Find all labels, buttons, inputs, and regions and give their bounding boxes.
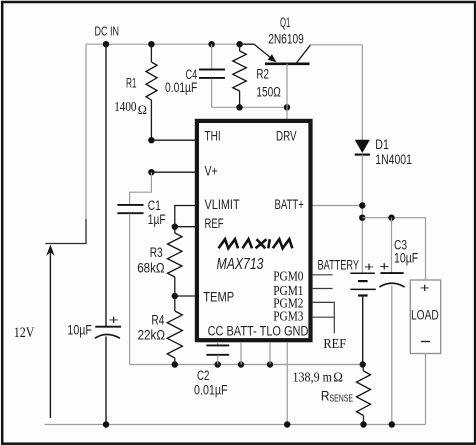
junction dot R2 top / Q1 emitter [236,41,242,47]
svg-text:MAX713: MAX713 [217,256,264,273]
svg-text:D1: D1 [375,137,389,152]
junction dot DC IN / 10uF branch [103,41,109,47]
junction dot R4 bottom [172,361,178,367]
IC U1 MAX713 body [197,121,311,340]
resistor R2 [233,44,247,107]
wire Q1 collector to D1 [310,44,362,46]
svg-text:1400: 1400 [114,99,137,114]
svg-text:R4: R4 [151,313,164,328]
svg-text:+: + [364,259,374,274]
MAXIM logo [219,239,293,248]
load box LOAD [410,280,440,354]
resistor R4 [167,296,182,365]
pin PGM3 tied to REF [273,310,334,325]
svg-text:V+: V+ [205,164,218,179]
wire collector rail down to D1 anode [361,45,363,140]
pin PGM0 [273,269,332,284]
voltage source arrow 12V [46,245,55,418]
junction dot battery minus / RSENSE top [360,361,366,367]
svg-text:REF: REF [323,337,346,352]
diode D1 [355,140,370,155]
svg-text:R2: R2 [256,67,269,82]
wire BATT+ pin to D1 column [312,205,362,207]
junction dot R1 top [148,41,154,47]
svg-text:0.01µF: 0.01µF [194,382,228,397]
wire top rail DC IN net [86,43,240,45]
svg-text:LOAD: LOAD [411,307,439,322]
svg-text:BATTERY: BATTERY [318,257,360,272]
svg-text:1µF: 1µF [148,212,166,227]
junction dot BATT+ to C3/LOAD branch [359,215,365,221]
pin PGM1 [273,284,332,299]
pin V+ [148,164,218,179]
svg-text:CC BATT- TLO GND: CC BATT- TLO GND [208,324,309,339]
svg-text:12V: 12V [14,325,35,341]
svg-text:TEMP: TEMP [203,289,234,304]
pin THI [148,129,221,144]
svg-text:VLIMIT: VLIMIT [205,197,240,212]
svg-text:R: R [321,388,330,403]
svg-text:+: + [379,258,389,273]
wire left rail from DC IN down [85,44,87,220]
junction dot C4 top [208,41,214,47]
pin VLIMIT with jog to REF [175,197,240,227]
junction dot ground/GND pin [284,421,290,427]
svg-text:Q1: Q1 [280,15,290,30]
resistor R1 [146,44,157,140]
svg-text:C1: C1 [148,198,161,213]
junction dot CC/C2 [215,361,221,367]
junction dot ground/RSENSE [360,421,366,427]
junction dot R2 bottom [236,104,242,110]
ground rail [45,424,426,426]
junction dot ground/10uF [103,421,109,427]
svg-text:R1: R1 [126,76,137,91]
svg-text:Ω: Ω [333,370,343,385]
resistor R3 [168,227,183,296]
pin TEMP [172,289,235,304]
wire GND pin to ground rail [286,342,288,425]
capacitor C4 [199,44,225,107]
wire TLO pin stub [269,342,271,365]
svg-text:DRV: DRV [276,129,297,144]
svg-text:1N4001: 1N4001 [375,152,412,167]
wire D1 cathode down to BATT+ node [361,155,363,273]
resistor RSENSE [357,365,371,425]
capacitor 10uF input (left) [95,44,121,424]
junction dot ground/C3 [389,421,395,427]
svg-text:PGM0: PGM0 [273,269,303,284]
svg-text:10µF: 10µF [394,250,418,265]
pin REF [172,216,224,231]
svg-text:SENSE: SENSE [330,393,354,404]
wire C4/R2 bottom to DRV [212,106,287,108]
wire BATT- pin stub [240,342,242,365]
svg-text:68kΩ: 68kΩ [137,260,164,275]
capacitor C1 [117,172,151,364]
svg-text:PGM3: PGM3 [273,310,303,325]
transistor Q1 [240,44,311,107]
battery BATTERY [350,273,376,364]
wire DRV pin stub [286,107,288,121]
wire BATT+ branch to C3 and LOAD [362,218,425,280]
svg-text:+: + [109,312,119,327]
pin PGM2 tied to REF [273,296,334,333]
junction dot C3 top [388,215,394,221]
junction dot BATT- pin [238,361,244,367]
svg-text:R3: R3 [150,245,163,260]
junction dot Q1 base / DRV [284,104,290,110]
wire left rail lower black part [45,219,86,244]
svg-text:THI: THI [205,129,221,144]
capacitor C2 on CC pin [206,342,229,365]
svg-text:DC IN: DC IN [95,25,120,39]
svg-text:138,9 m: 138,9 m [293,370,333,385]
wire BATT- net horizontal [130,364,363,366]
junction dot BATT+ [359,202,365,208]
svg-text:BATT+: BATT+ [275,197,304,212]
svg-text:0.01µF: 0.01µF [165,80,197,95]
svg-text:Ω: Ω [138,103,147,117]
svg-text:+: + [420,280,430,295]
svg-text:10µF: 10µF [67,323,92,338]
svg-text:REF: REF [205,216,224,231]
capacitor C3 [379,218,404,425]
wire LOAD bottom to ground rail [425,354,427,425]
svg-text:22kΩ: 22kΩ [138,328,165,343]
svg-text:C2: C2 [197,368,209,383]
svg-text:150Ω: 150Ω [256,85,280,100]
svg-text:2N6109: 2N6109 [268,32,304,47]
junction dot TLO pin [267,361,273,367]
